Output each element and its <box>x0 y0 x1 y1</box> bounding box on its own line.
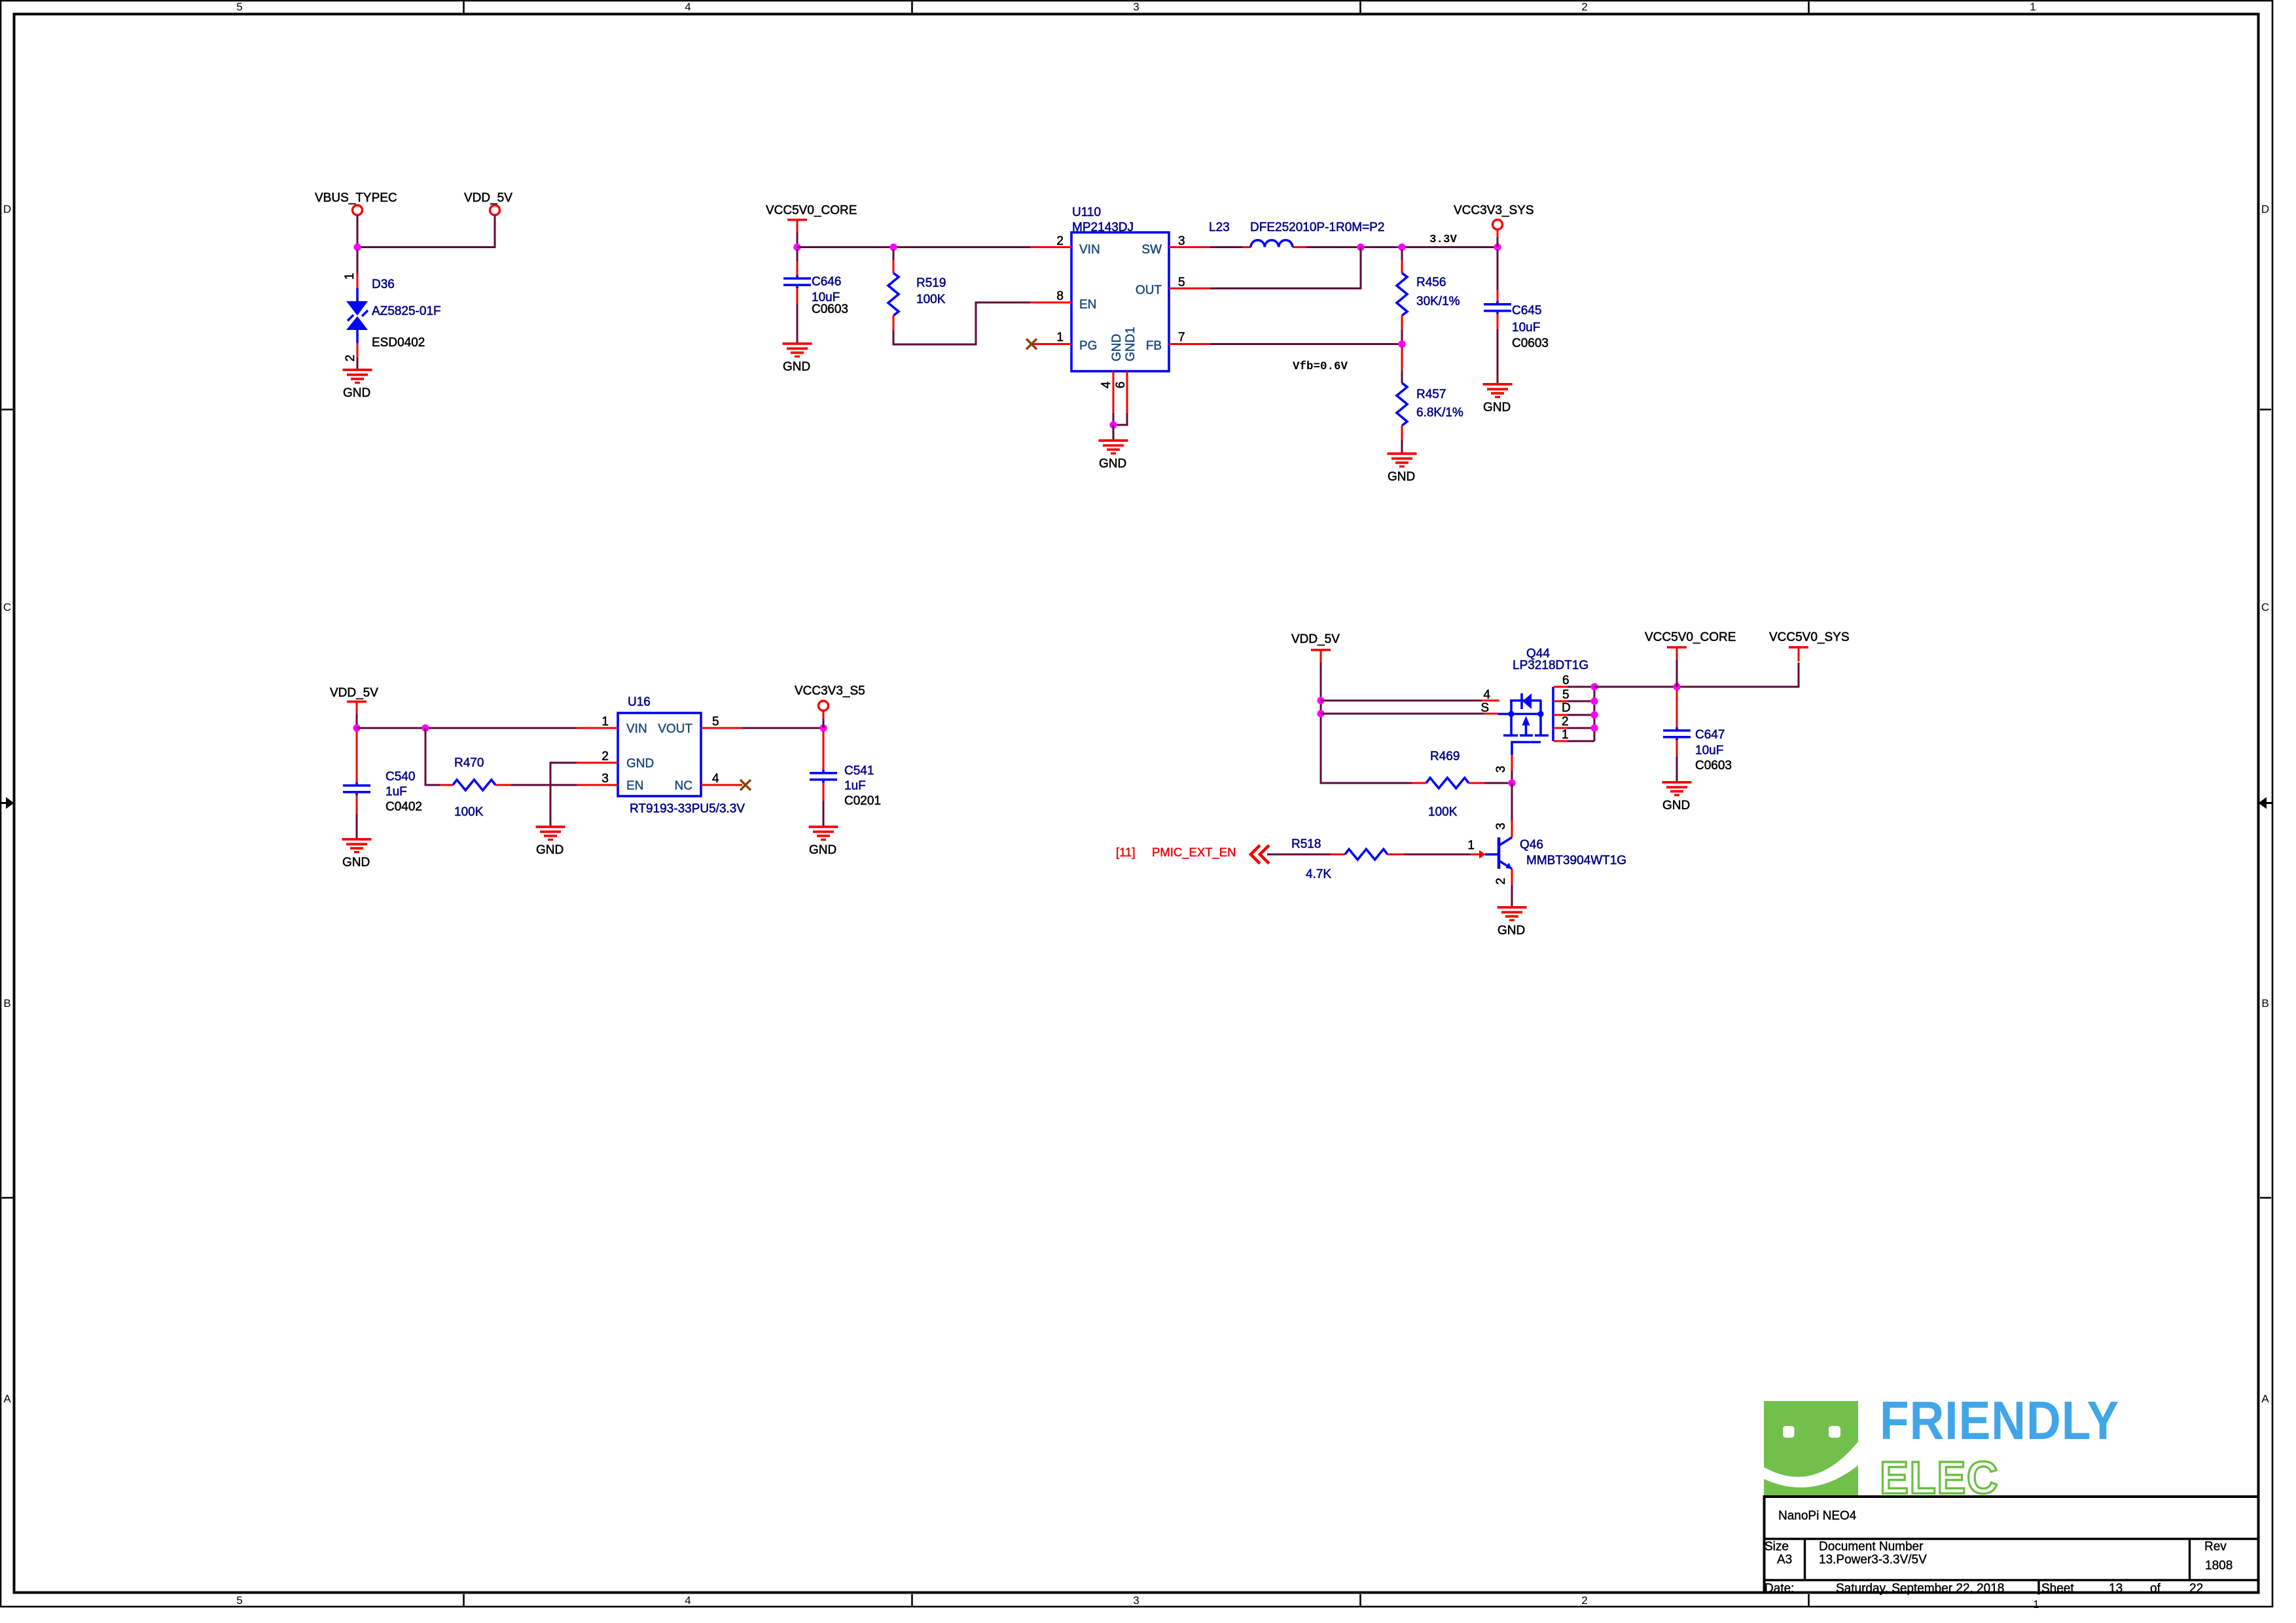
svg-text:5: 5 <box>1178 276 1185 289</box>
pin 1 base arrow <box>1470 854 1480 856</box>
node S branch <box>1317 710 1324 717</box>
svg-text:RT9193-33PU5/3.3V: RT9193-33PU5/3.3V <box>630 802 745 816</box>
svg-text:VCC3V3_S5: VCC3V3_S5 <box>795 684 865 698</box>
svg-text:Size: Size <box>1765 1540 1789 1554</box>
wire C647 to ground <box>1676 757 1678 782</box>
wire OUT feedback <box>1169 287 1210 289</box>
svg-text:1: 1 <box>601 715 609 729</box>
ground <box>343 369 372 384</box>
off-page connector PMIC_EXT_EN <box>1251 845 1269 864</box>
wire R470 to EN <box>511 784 577 786</box>
wire VDD down <box>1321 663 1412 783</box>
wire VCC5V0_CORE down <box>797 232 798 245</box>
pin 2 wire <box>1554 727 1568 729</box>
svg-text:1uF: 1uF <box>844 779 866 793</box>
svg-text:4: 4 <box>685 1 691 13</box>
wire R469 to gate node <box>1484 782 1512 784</box>
wire emitter to ground <box>1511 885 1513 907</box>
resistor R518 <box>1331 854 1345 856</box>
wire gate node down to Q46 <box>1511 783 1513 820</box>
svg-text:Sheet: Sheet <box>2041 1582 2074 1596</box>
node pin5 <box>1590 697 1598 704</box>
wire VDD_5V branch <box>357 215 495 247</box>
svg-text:1uF: 1uF <box>386 785 407 799</box>
pin 5 wire <box>1554 701 1568 702</box>
svg-text:VBUS_TYPEC: VBUS_TYPEC <box>315 191 397 205</box>
ground <box>783 342 812 357</box>
svg-text:GND: GND <box>1388 470 1415 484</box>
svg-text:S: S <box>1480 701 1489 715</box>
svg-text:GND: GND <box>1099 457 1126 471</box>
ground <box>809 826 838 841</box>
svg-text:7: 7 <box>1178 331 1185 344</box>
resistor R470 <box>440 784 453 786</box>
pin 2 VIN <box>1030 246 1071 248</box>
svg-text:1808: 1808 <box>2205 1559 2233 1573</box>
wire R519 to EN <box>893 302 1030 344</box>
svg-text:D: D <box>1562 701 1571 715</box>
svg-text:D: D <box>3 203 11 215</box>
pin 2 GND <box>577 762 618 764</box>
pin 3 EN <box>577 784 618 786</box>
IC U110 <box>1071 232 1169 371</box>
pin 2 emitter of Q46 <box>1511 869 1513 885</box>
wire gate to R469 node <box>1511 771 1513 783</box>
svg-text:Date:: Date: <box>1765 1582 1794 1596</box>
pins 4 and 6 GND <box>1113 371 1127 413</box>
svg-text:A3: A3 <box>1777 1553 1792 1567</box>
pin 5 VOUT <box>701 727 742 729</box>
svg-text:VDD_5V: VDD_5V <box>464 191 512 205</box>
pin S of Q44 <box>1484 713 1498 715</box>
svg-text:VIN: VIN <box>626 722 647 736</box>
svg-text:22: 22 <box>2189 1582 2203 1596</box>
ground <box>1483 383 1513 398</box>
node main input <box>793 244 800 251</box>
svg-text:13.Power3-3.3V/5V: 13.Power3-3.3V/5V <box>1819 1553 1927 1567</box>
pin 5 OUT <box>1169 287 1210 289</box>
svg-text:C645: C645 <box>1512 304 1541 318</box>
node pin4 branch <box>1317 697 1324 704</box>
diode D36 <box>356 288 359 343</box>
resistor R519 <box>893 249 895 260</box>
node pin2 <box>1590 724 1598 731</box>
svg-text:MMBT3904WT1G: MMBT3904WT1G <box>1526 854 1626 867</box>
wire to pin 4 <box>1321 700 1482 702</box>
svg-text:4: 4 <box>1100 381 1113 388</box>
svg-text:ELEC: ELEC <box>1880 1452 1999 1503</box>
wire R456 to FB node <box>1401 329 1403 344</box>
wire C540 to ground <box>356 814 358 839</box>
svg-text:VIN: VIN <box>1079 243 1100 257</box>
svg-text:of: of <box>2150 1582 2161 1596</box>
capacitor C540 <box>356 731 358 782</box>
svg-text:GND: GND <box>342 856 370 869</box>
svg-text:MP2143DJ: MP2143DJ <box>1072 221 1134 234</box>
svg-text:VCC5V0_SYS: VCC5V0_SYS <box>1769 630 1850 644</box>
svg-text:2: 2 <box>1581 1594 1587 1607</box>
pin 4 of Q44 <box>1482 700 1499 702</box>
svg-text:EN: EN <box>626 779 643 793</box>
wire SW to L23 <box>1210 246 1243 248</box>
svg-text:100K: 100K <box>916 293 946 306</box>
svg-text:SW: SW <box>1141 243 1162 257</box>
svg-text:AZ5825-01F: AZ5825-01F <box>372 304 441 318</box>
svg-text:C540: C540 <box>386 770 415 784</box>
svg-text:A: A <box>3 1393 11 1405</box>
svg-text:R519: R519 <box>916 276 946 290</box>
wire pins 4/6 to ground <box>1113 413 1127 425</box>
CIRCUIT-U110 <box>766 204 1549 484</box>
pin 7 FB <box>1169 343 1210 345</box>
wire base <box>1404 854 1471 856</box>
node C645 top <box>1494 244 1501 251</box>
svg-text:4: 4 <box>685 1594 691 1607</box>
wire drain to VCC5V0_SYS <box>1594 663 1799 687</box>
resistor R456 <box>1401 249 1403 260</box>
pin D wire <box>1554 714 1568 716</box>
wire branch to R470 <box>425 728 440 785</box>
svg-text:NanoPi NEO4: NanoPi NEO4 <box>1778 1509 1857 1523</box>
svg-text:LP3218DT1G: LP3218DT1G <box>1513 659 1588 672</box>
svg-text:GND: GND <box>1498 924 1525 938</box>
svg-text:FB: FB <box>1146 339 1162 353</box>
svg-text:D: D <box>2261 203 2269 215</box>
no-connect X on NC <box>740 780 751 790</box>
svg-text:VCC3V3_SYS: VCC3V3_SYS <box>1454 204 1534 217</box>
svg-text:1: 1 <box>1562 728 1569 742</box>
pin 1 of D36 <box>357 274 359 288</box>
bottom margin ticks <box>463 1594 465 1606</box>
svg-text:2: 2 <box>1494 878 1508 885</box>
wire to ground <box>357 357 359 369</box>
svg-text:Q46: Q46 <box>1520 838 1543 852</box>
svg-text:10uF: 10uF <box>1695 744 1723 757</box>
svg-text:5: 5 <box>1562 688 1570 702</box>
node junction <box>353 244 361 251</box>
inductor L23 <box>1243 246 1306 248</box>
wire to pin S <box>1321 713 1484 715</box>
svg-text:R457: R457 <box>1416 388 1446 401</box>
svg-text:2: 2 <box>1562 715 1569 729</box>
left center arrow <box>0 802 7 804</box>
top margin ticks <box>463 2 465 13</box>
svg-text:PMIC_EXT_EN: PMIC_EXT_EN <box>1152 845 1236 860</box>
svg-text:1: 1 <box>1056 331 1064 344</box>
svg-text:L23: L23 <box>1209 221 1230 234</box>
pin 3 SW <box>1169 246 1210 248</box>
svg-text:A: A <box>2261 1393 2269 1405</box>
pin 3 collector of Q46 <box>1511 820 1513 837</box>
ground <box>342 838 372 853</box>
pin 4 NC <box>701 784 742 786</box>
svg-text:C0402: C0402 <box>386 800 422 814</box>
svg-text:C646: C646 <box>812 275 841 289</box>
wire R457 to ground <box>1401 440 1403 453</box>
svg-text:Rev: Rev <box>2204 1540 2227 1554</box>
svg-text:B: B <box>3 997 10 1010</box>
svg-text:C647: C647 <box>1695 728 1725 742</box>
wire FB <box>1210 343 1402 345</box>
right margin ticks <box>2260 409 2271 410</box>
svg-text:6.8K/1%: 6.8K/1% <box>1416 406 1463 420</box>
svg-text:VDD_5V: VDD_5V <box>1291 632 1340 646</box>
pin 6 wire <box>1554 686 1568 688</box>
svg-text:GND: GND <box>1110 334 1124 361</box>
svg-text:GND: GND <box>343 386 370 400</box>
svg-text:GND: GND <box>809 843 836 857</box>
svg-text:4.7K: 4.7K <box>1306 867 1331 881</box>
drain bus bar of Q44 <box>1552 687 1554 741</box>
wire C646 to ground <box>797 304 798 343</box>
left margin ticks <box>2 409 13 410</box>
pin 1 VIN <box>577 727 618 729</box>
svg-text:13: 13 <box>2109 1582 2123 1596</box>
pin 1 PG <box>1033 343 1071 345</box>
right center arrow <box>2265 802 2272 804</box>
svg-text:1: 1 <box>343 273 357 280</box>
svg-text:NC: NC <box>675 779 692 793</box>
svg-text:VCC5V0_CORE: VCC5V0_CORE <box>1645 630 1736 644</box>
node R456 top <box>1398 244 1405 251</box>
capacitor C647 <box>1676 690 1678 727</box>
svg-text:2: 2 <box>1056 234 1064 248</box>
svg-text:30K/1%: 30K/1% <box>1416 295 1460 308</box>
svg-text:GND: GND <box>626 757 654 771</box>
svg-text:C0603: C0603 <box>812 302 848 316</box>
svg-text:VCC5V0_CORE: VCC5V0_CORE <box>766 204 857 217</box>
wire junction to D36 <box>357 249 359 274</box>
TITLE-BLOCK <box>1763 1497 2259 1596</box>
svg-text:D36: D36 <box>372 278 395 291</box>
svg-text:GND: GND <box>1662 799 1690 812</box>
svg-text:100K: 100K <box>454 805 484 819</box>
CIRCUIT-Q44-Q46 <box>1116 630 1850 938</box>
svg-text:1: 1 <box>2030 1 2036 13</box>
svg-text:R518: R518 <box>1291 837 1321 851</box>
svg-text:5: 5 <box>236 1594 242 1607</box>
svg-text:OUT: OUT <box>1136 283 1162 297</box>
node L23 out <box>1357 244 1364 251</box>
svg-text:Saturday, September 22, 2018: Saturday, September 22, 2018 <box>1836 1582 2004 1596</box>
wire VBUS to junction <box>357 215 359 246</box>
resistor R469 <box>1412 782 1426 784</box>
CIRCUIT-D36 <box>315 191 512 400</box>
svg-text:3: 3 <box>601 772 609 786</box>
node pinD <box>1590 711 1598 718</box>
svg-text:R456: R456 <box>1416 276 1446 289</box>
wire VOUT to output node <box>742 727 823 729</box>
svg-text:6: 6 <box>1562 674 1570 687</box>
svg-text:2: 2 <box>344 355 357 362</box>
svg-text:C0201: C0201 <box>844 794 881 808</box>
node VCC5V0_CORE tap <box>1673 683 1680 690</box>
svg-text:Vfb=0.6V: Vfb=0.6V <box>1293 360 1348 373</box>
svg-text:R469: R469 <box>1430 750 1460 763</box>
svg-text:U16: U16 <box>628 695 651 709</box>
svg-text:1: 1 <box>1467 839 1475 852</box>
svg-text:3: 3 <box>1178 234 1185 248</box>
svg-text:3.3V: 3.3V <box>1429 233 1458 246</box>
svg-text:[11]: [11] <box>1116 845 1135 859</box>
node pin6 <box>1590 683 1598 690</box>
svg-text:EN: EN <box>1079 298 1096 312</box>
svg-text:C0603: C0603 <box>1695 759 1732 773</box>
wire C541 to ground <box>823 801 825 826</box>
node R470 branch <box>422 724 429 731</box>
LOGO <box>1764 1390 2119 1504</box>
svg-text:GND1: GND1 <box>1124 327 1138 361</box>
ground <box>1498 906 1527 921</box>
node R519 top <box>889 244 897 251</box>
svg-text:C0603: C0603 <box>1512 337 1549 350</box>
CIRCUIT-U16 <box>330 684 881 869</box>
svg-text:2: 2 <box>1581 1 1587 13</box>
wire C645 to ground <box>1497 329 1499 384</box>
svg-text:B: B <box>2261 997 2269 1010</box>
wire main to VIN <box>797 246 1030 248</box>
svg-text:FRIENDLY: FRIENDLY <box>1880 1390 2119 1451</box>
svg-text:U110: U110 <box>1072 206 1101 219</box>
no-connect X on PG <box>1026 339 1037 350</box>
svg-text:6: 6 <box>1114 382 1128 389</box>
node gate <box>1508 779 1515 786</box>
svg-text:C541: C541 <box>844 764 874 778</box>
svg-text:2: 2 <box>601 750 609 763</box>
svg-text:3: 3 <box>1133 1594 1139 1607</box>
svg-text:4: 4 <box>1483 688 1490 702</box>
svg-text:GND: GND <box>783 360 810 374</box>
resistor R457 <box>1401 347 1403 371</box>
svg-text:C: C <box>2261 601 2269 613</box>
wire port to R518 <box>1267 854 1331 856</box>
svg-text:5: 5 <box>712 715 719 729</box>
svg-text:ESD0402: ESD0402 <box>372 336 425 350</box>
ground <box>1388 452 1417 467</box>
svg-text:4: 4 <box>712 772 719 786</box>
svg-text:3: 3 <box>1133 1 1139 13</box>
pin 1 wire <box>1554 740 1568 742</box>
drain tie vertical wire <box>1594 687 1596 741</box>
node FB <box>1398 340 1405 348</box>
node VDD <box>353 724 360 731</box>
svg-text:DFE252010P-1R0M=P2: DFE252010P-1R0M=P2 <box>1250 221 1384 234</box>
svg-text:1: 1 <box>2033 1598 2039 1611</box>
svg-text:PG: PG <box>1079 339 1097 353</box>
ground <box>1662 781 1692 796</box>
pin 2 of D36 <box>357 343 359 357</box>
svg-text:GND: GND <box>1483 401 1511 414</box>
svg-text:3: 3 <box>1494 766 1508 773</box>
ground <box>536 826 565 841</box>
wire GND pin to ground <box>550 763 577 826</box>
svg-text:5: 5 <box>236 1 242 13</box>
capacitor C645 <box>1497 249 1499 290</box>
wire L23 to VCC3V3_SYS <box>1306 246 1498 248</box>
capacitor C541 <box>823 731 825 770</box>
svg-text:Document Number: Document Number <box>1819 1540 1924 1554</box>
svg-text:VOUT: VOUT <box>658 722 692 736</box>
capacitor C646 <box>797 249 798 261</box>
svg-text:3: 3 <box>1494 823 1508 830</box>
pin 8 EN <box>1030 302 1071 304</box>
svg-text:VDD_5V: VDD_5V <box>330 686 378 700</box>
svg-text:10uF: 10uF <box>1512 321 1540 335</box>
svg-text:8: 8 <box>1056 289 1064 303</box>
IC U16 <box>618 713 701 796</box>
pin 3 gate of Q44 <box>1511 755 1513 771</box>
svg-text:R470: R470 <box>454 756 484 770</box>
node VOUT <box>819 724 827 731</box>
ground <box>1099 439 1128 454</box>
svg-text:100K: 100K <box>1428 805 1458 819</box>
wire main to VIN <box>357 727 577 729</box>
svg-text:GND: GND <box>536 843 564 857</box>
svg-text:C: C <box>3 601 11 613</box>
